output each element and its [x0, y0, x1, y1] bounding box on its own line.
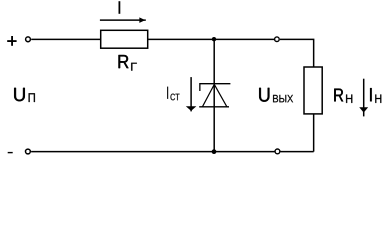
- resistor RN (load) vertical: [304, 67, 322, 114]
- terminal circle bottom-right (- output): [275, 149, 280, 154]
- wire: bottom-right terminal to RN bottom corner: [281, 151, 314, 153]
- plus sign: [7, 36, 16, 46]
- minus sign: [8, 152, 13, 153]
- label UP subscript P: [29, 93, 35, 102]
- terminal circle top-left (+ input): [26, 37, 31, 42]
- zener diode VD: triangle sides (anode): [202, 84, 227, 106]
- zener diode VD: anode base line: [199, 106, 229, 108]
- label I (current through RG): [119, 1, 121, 14]
- label RN subscript N: [346, 95, 352, 103]
- arrow IST (downward): [187, 77, 195, 111]
- label RG subscript G: [131, 63, 137, 71]
- label IN subscript N: [375, 95, 381, 103]
- node A junction dot (top): [212, 37, 216, 41]
- label IST main I (zener current): [167, 87, 168, 99]
- zener diode branch wire (vertical, node A to bottom node): [213, 39, 215, 151]
- arrow IN (load current, downward): [360, 79, 367, 117]
- label UP main U (input voltage): [14, 88, 25, 101]
- resistor RG (series resistor): [101, 30, 148, 48]
- wire: top-right terminal to RN top corner: [280, 39, 314, 67]
- terminal circle top-right (+ output): [275, 37, 280, 42]
- zener diode VD: cathode bar with bent end: [200, 84, 231, 91]
- wire: RN bottom to bottom rail corner: [313, 114, 315, 152]
- wire: top-left terminal to resistor RG: [31, 38, 100, 40]
- current arrow I (rightward): [100, 18, 146, 22]
- terminal circle bottom-left (- input): [26, 149, 31, 154]
- label IN main I (load current): [370, 88, 372, 101]
- junction dot bottom: [212, 149, 217, 154]
- label UVYH subscript VYH: [273, 95, 293, 102]
- label IST subscript ST: [171, 94, 180, 101]
- label RN main R: [334, 89, 343, 102]
- label RG main R: [119, 55, 129, 68]
- label UVYH main U (output voltage): [259, 88, 269, 102]
- wire: resistor RG through node A to top-right terminal: [148, 38, 274, 40]
- bottom rail wire: [31, 151, 275, 153]
